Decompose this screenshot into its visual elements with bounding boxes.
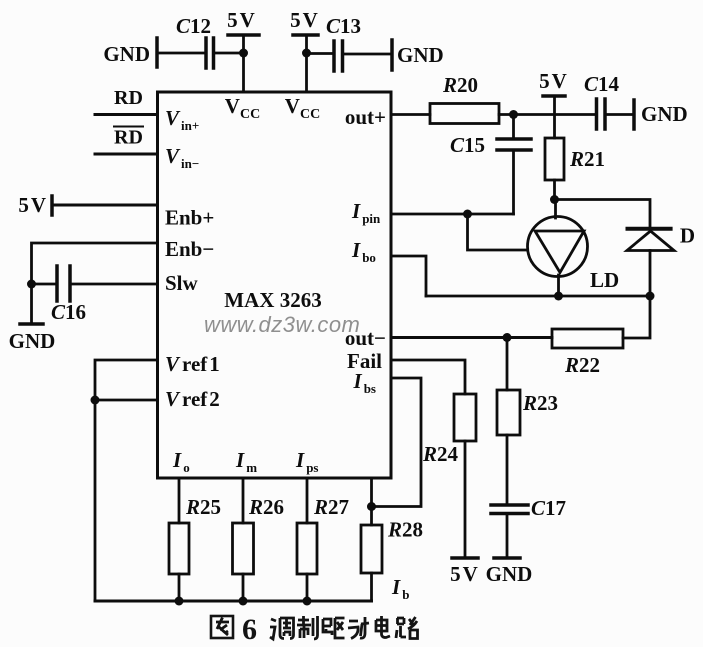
svg-text:C16: C16: [51, 300, 86, 324]
node Vcc1 junction: [239, 49, 248, 58]
svg-text:GND: GND: [9, 329, 56, 353]
node Vcc2 junction: [302, 49, 311, 58]
svg-text:Ibs: Ibs: [353, 369, 376, 396]
svg-text:Ipin: Ipin: [351, 199, 381, 226]
node out- junction: [503, 333, 512, 342]
wire Ib pin down: [370, 478, 373, 525]
svg-text:VCC: VCC: [285, 94, 320, 122]
wire R20 to C14: [499, 113, 597, 116]
caption 图 6 调制驱动电路 (drawn strokes): [211, 613, 418, 646]
wire C15 to Ipin wire: [512, 150, 515, 214]
svg-text:D: D: [680, 224, 695, 248]
char 电: [376, 616, 390, 638]
wire Vcc2 to C13: [307, 52, 335, 55]
resistor R27: [297, 495, 349, 574]
wire C12 to Vcc1: [214, 52, 244, 55]
node R28 top junction: [367, 502, 376, 511]
svg-text:Fail: Fail: [347, 349, 382, 373]
wire R26 to rail: [242, 574, 245, 601]
power 5V (second, top): [290, 8, 318, 35]
wire Ips down: [306, 478, 309, 523]
resistor R21: [545, 138, 605, 180]
node R20 junction: [509, 110, 518, 119]
svg-text:VCC: VCC: [225, 94, 260, 122]
svg-text:R24: R24: [422, 442, 459, 466]
node R21-LD junction: [550, 195, 559, 204]
wire Ibs to R28: [372, 378, 422, 507]
wire Im down: [242, 478, 245, 523]
svg-text:Vref1: Vref1: [165, 352, 220, 376]
laser diode LD: [528, 217, 620, 293]
wire R27 to rail: [306, 574, 309, 601]
wire D junction down to R22: [623, 296, 650, 338]
diode D: [627, 224, 695, 251]
svg-text:5V: 5V: [18, 193, 46, 217]
capacitor C17: [491, 496, 566, 520]
char 图: [211, 616, 233, 638]
svg-text:GND: GND: [397, 43, 444, 67]
svg-text:GND: GND: [486, 562, 533, 586]
capacitor C14: [584, 72, 620, 129]
svg-text:Ips: Ips: [295, 448, 318, 475]
svg-text:R25: R25: [185, 495, 221, 519]
svg-text:LD: LD: [590, 268, 619, 292]
char 动: [348, 617, 369, 639]
svg-text:C15: C15: [450, 133, 485, 157]
svg-text:6: 6: [242, 613, 257, 646]
svg-text:GND: GND: [103, 42, 150, 66]
power 5V (above R21): [539, 69, 567, 96]
op-amp U1 MAX3263 body: [158, 92, 392, 478]
svg-text:C17: C17: [531, 496, 566, 520]
svg-text:Vref2: Vref2: [165, 387, 220, 411]
svg-text:R20: R20: [442, 73, 478, 97]
wire junction to diode D: [555, 200, 651, 230]
node Vref junction: [91, 396, 100, 405]
svg-text:R26: R26: [248, 495, 284, 519]
wire junction to C15: [512, 115, 515, 140]
char 路: [396, 617, 418, 639]
resistor R24: [422, 394, 476, 466]
node LD bottom junction: [554, 292, 563, 301]
resistor R26: [233, 495, 285, 574]
svg-text:out−: out−: [345, 326, 386, 350]
node rail junction 3: [303, 597, 312, 606]
svg-text:R23: R23: [522, 391, 558, 415]
capacitor C13: [326, 14, 361, 71]
wire C16 to Slw: [70, 283, 157, 286]
wire out+ to R20: [391, 113, 430, 116]
svg-text:Ibo: Ibo: [351, 238, 376, 265]
wire Ibo: [391, 256, 426, 296]
capacitor C16: [51, 266, 86, 324]
wire D down to junction: [649, 251, 652, 297]
wire R24 to 5V: [464, 441, 467, 558]
svg-text:Vin+: Vin+: [165, 106, 199, 133]
wire Fail to R24: [391, 360, 465, 394]
svg-text:R21: R21: [569, 147, 605, 171]
svg-text:out+: out+: [345, 105, 386, 129]
svg-text:RD: RD: [114, 127, 143, 149]
node D bottom junction: [646, 292, 655, 301]
svg-text:5V: 5V: [539, 69, 567, 93]
wire Io down: [178, 478, 181, 523]
char 调: [270, 618, 294, 639]
svg-text:5V: 5V: [450, 562, 478, 586]
resistor R22: [552, 329, 623, 377]
svg-text:Ib: Ib: [391, 575, 409, 602]
svg-text:R28: R28: [387, 518, 423, 542]
svg-text:GND: GND: [641, 102, 688, 126]
svg-text:R22: R22: [564, 353, 600, 377]
wire Vref2: [95, 399, 157, 402]
wire GND to C12: [157, 52, 206, 55]
wire bottom rail: [95, 600, 372, 603]
wire Vcc2 vertical: [305, 35, 308, 92]
svg-text:5V: 5V: [227, 8, 255, 32]
power 5V (top left): [227, 8, 259, 35]
wire 5V to R21: [553, 96, 556, 138]
ground GND (right of C14): [634, 100, 688, 129]
power 5V (below R24): [450, 558, 478, 586]
wire R21 down: [553, 180, 556, 200]
wire C17 to GND: [506, 514, 509, 559]
wire Vref1: [95, 360, 157, 400]
svg-text:C12: C12: [176, 14, 211, 38]
resistor R28: [361, 518, 423, 574]
svg-text:C14: C14: [584, 72, 620, 96]
resistor R23: [497, 390, 558, 435]
node RDbar label: [114, 127, 143, 149]
resistor R25: [169, 495, 221, 574]
char 驱: [323, 618, 345, 638]
power 5V (Enb+): [18, 193, 52, 217]
svg-text:Im: Im: [235, 448, 257, 475]
wire C13 to GND: [343, 53, 393, 56]
wire out-: [391, 336, 552, 339]
svg-text:www.dz3w.com: www.dz3w.com: [204, 312, 360, 337]
wire left rail down: [94, 400, 97, 601]
ground GND (top, right of C13): [392, 40, 444, 70]
svg-text:MAX 3263: MAX 3263: [224, 288, 321, 312]
wire RD to Vin+: [95, 113, 157, 116]
wire out- junction down to R23: [506, 338, 509, 391]
svg-text:RD: RD: [114, 87, 143, 109]
svg-text:5V: 5V: [290, 8, 318, 32]
wire R25 to rail: [178, 574, 181, 601]
svg-text:Enb+: Enb+: [165, 206, 214, 230]
wire R28 to rail: [370, 573, 373, 601]
svg-text:Enb−: Enb−: [165, 237, 214, 261]
resistor R20: [430, 73, 499, 124]
wire Ipin: [391, 213, 514, 216]
wire junction to C16: [32, 283, 58, 286]
svg-text:C13: C13: [326, 14, 361, 38]
capacitor C15: [450, 133, 531, 157]
node Ipin junction: [463, 210, 472, 219]
wire C14 to GND: [605, 113, 634, 116]
wire 5V to Enb+: [52, 204, 157, 207]
wire R23 to C17: [506, 435, 509, 505]
node rail junction 2: [239, 597, 248, 606]
node Slw junction: [27, 280, 36, 289]
ground GND (below C16): [9, 284, 56, 353]
wire junction into LD: [554, 200, 557, 219]
wire Ipin junction to LD: [468, 214, 528, 250]
svg-text:Slw: Slw: [165, 271, 199, 295]
char 制: [297, 616, 318, 639]
wire RDbar to Vin-: [95, 153, 157, 156]
wire Enb-: [32, 243, 158, 284]
svg-text:Io: Io: [172, 448, 190, 475]
node rail junction 1: [175, 597, 184, 606]
wire Vcc1 vertical: [242, 35, 245, 92]
wire Ibo to LD bottom rail: [426, 295, 650, 298]
ground GND (top left, at C12): [103, 38, 157, 67]
svg-text:R27: R27: [313, 495, 349, 519]
svg-text:Vin−: Vin−: [165, 144, 199, 171]
capacitor C12: [176, 14, 214, 68]
wire LD bottom: [557, 275, 560, 296]
ground GND (below C17): [486, 558, 533, 586]
